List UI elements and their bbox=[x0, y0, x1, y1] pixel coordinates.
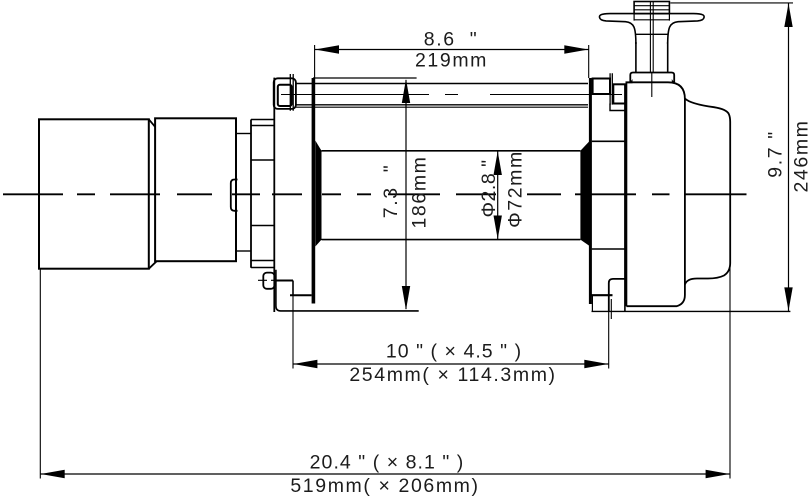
top-right clamp lip bbox=[610, 104, 626, 111]
coupling step top bbox=[236, 133, 251, 135]
collar fillet left bbox=[627, 79, 633, 83]
left flange fill bbox=[315, 141, 321, 247]
dim 8.6 extension left bbox=[314, 45, 316, 78]
gear housing body bbox=[626, 82, 685, 306]
bottom-right clamp left thin edge bbox=[591, 295, 593, 311]
left drum flange bbox=[312, 78, 316, 304]
dim 10 extension left bbox=[292, 296, 294, 369]
svg-text:519mm( × 206mm): 519mm( × 206mm) bbox=[290, 475, 479, 497]
top-right clamp bolt bbox=[610, 73, 612, 104]
dim 8.6 line bbox=[315, 49, 589, 51]
dim 9.7 arrow top bbox=[784, 3, 792, 27]
collar fillet right bbox=[672, 79, 678, 83]
right connector line upper bbox=[592, 140, 627, 142]
svg-text:219mm: 219mm bbox=[415, 50, 488, 72]
dim 10 line bbox=[293, 363, 609, 365]
dim 9.7 arrow bottom bbox=[784, 287, 792, 311]
tie bar bottom edge bbox=[296, 104, 588, 106]
right flange fill bbox=[580, 141, 589, 246]
bottom tie bar left segment bbox=[290, 294, 312, 296]
clutch stem bbox=[636, 42, 668, 73]
clutch stem joint line bbox=[636, 33, 668, 35]
drum barrel bottom bbox=[322, 239, 581, 241]
dim phi2.8 arrow bottom bbox=[494, 216, 502, 240]
dim 20.4 extension left bbox=[39, 269, 41, 479]
motor joint chamfer top bbox=[149, 119, 155, 127]
dim 20.4 arrow right bbox=[706, 470, 730, 478]
right connector line lower bbox=[592, 248, 627, 250]
bottom-left clamp body and base line bbox=[276, 270, 419, 311]
coupling plate left edge bbox=[250, 120, 252, 268]
bottom-right clamp body bbox=[609, 279, 626, 312]
top-left tie bar clamp outer bbox=[274, 78, 296, 109]
svg-text:246mm: 246mm bbox=[791, 119, 809, 192]
dim phi2.8 line bbox=[497, 151, 499, 240]
top-right clamp bolt block bbox=[593, 79, 610, 95]
top-right clamp inner block bbox=[613, 84, 625, 103]
bottom-right clamp thick edge bbox=[590, 294, 612, 296]
dim 10 extension right bbox=[608, 300, 610, 369]
shaft tab on centerline bbox=[231, 180, 238, 211]
dim 8.6 arrow left bbox=[315, 45, 339, 53]
top-left tie bar clamp inner bbox=[278, 85, 292, 106]
clutch knob stripes bbox=[634, 6, 669, 21]
frame plate left edge bbox=[273, 78, 275, 312]
svg-text:7.3 ": 7.3 " bbox=[380, 164, 402, 218]
dim 9.7 top extension bbox=[670, 2, 793, 4]
dim 7.3 line bbox=[405, 80, 407, 309]
right drum flange bbox=[589, 78, 592, 304]
dim 20.4 arrow left bbox=[41, 470, 65, 478]
dim 10 arrow left bbox=[293, 360, 317, 368]
svg-text:Φ72mm: Φ72mm bbox=[505, 150, 527, 228]
dim 20.4 line bbox=[40, 473, 730, 475]
clutch centerline bbox=[650, 2, 653, 97]
bottom-right clamp bolt stem bbox=[610, 299, 612, 319]
svg-text:186mm: 186mm bbox=[409, 155, 431, 228]
motor block 1 bbox=[39, 119, 149, 268]
dim 8.6 extension right bbox=[588, 45, 590, 78]
svg-text:10 " ( × 4.5 " ): 10 " ( × 4.5 " ) bbox=[386, 341, 522, 363]
svg-text:20.4 " ( × 8.1 " ): 20.4 " ( × 8.1 " ) bbox=[310, 451, 465, 473]
gear housing bulge bbox=[685, 99, 730, 285]
dim 7.3 arrow bottom bbox=[402, 286, 410, 310]
drum barrel top bbox=[322, 150, 581, 152]
dim phi2.8 arrow top bbox=[494, 151, 502, 175]
main horizontal centerline bbox=[3, 193, 747, 195]
svg-text:Φ2.8 ": Φ2.8 " bbox=[478, 159, 500, 217]
dim 8.6 arrow right bbox=[564, 45, 588, 53]
tie bar lower second line bbox=[296, 106, 588, 108]
bottom-left clamp bolt bbox=[263, 273, 274, 289]
drum flange top line bbox=[313, 77, 417, 79]
clutch collar bbox=[630, 73, 674, 83]
dim 10 arrow right bbox=[584, 360, 608, 368]
svg-text:254mm( × 114.3mm): 254mm( × 114.3mm) bbox=[349, 364, 556, 386]
clutch knob bbox=[634, 2, 669, 14]
svg-text:8.6 ": 8.6 " bbox=[424, 29, 478, 51]
base line bbox=[592, 310, 791, 312]
coupling plate ribs bbox=[251, 120, 274, 268]
bottom-left clamp top edge bbox=[274, 280, 293, 282]
clutch handle wings bbox=[599, 14, 704, 44]
right frame plate bbox=[624, 84, 626, 312]
coupling step bottom bbox=[236, 250, 251, 252]
tie bar top edge bbox=[296, 83, 588, 85]
motor block 2 bbox=[155, 118, 236, 261]
top-left clamp bolt bbox=[290, 74, 293, 111]
bottom-left clamp right edge bbox=[292, 281, 294, 297]
tie bar centerline bbox=[281, 94, 622, 96]
motor joint chamfer bottom bbox=[149, 261, 157, 269]
bottom-left bolt centerline bbox=[258, 279, 284, 281]
svg-text:9.7 ": 9.7 " bbox=[765, 130, 787, 177]
dim 9.7 line bbox=[788, 3, 790, 312]
dim 7.3 arrow top bbox=[402, 79, 410, 103]
dim 20.4 extension right bbox=[729, 265, 731, 479]
